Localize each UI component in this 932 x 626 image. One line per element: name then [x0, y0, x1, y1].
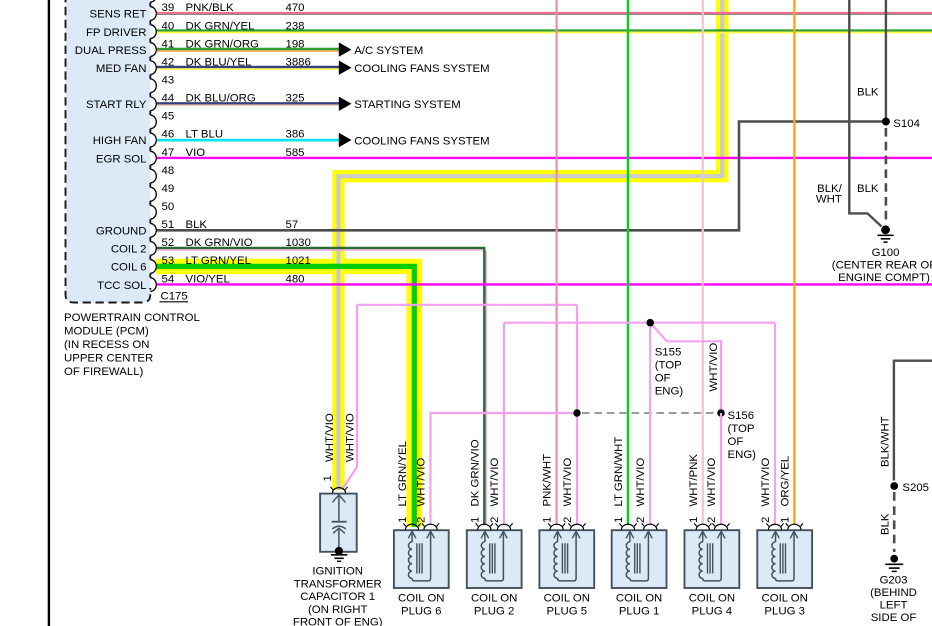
- splice S104: [882, 118, 890, 126]
- svg-text:MODULE (PCM): MODULE (PCM): [64, 325, 149, 337]
- svg-text:WHT/VIO: WHT/VIO: [345, 413, 357, 462]
- svg-text:ENGINE COMPT): ENGINE COMPT): [838, 272, 930, 284]
- PCM connector right edge (dashed segments): [149, 2, 151, 277]
- coil-on-plug 5 pin entry arcs: [548, 523, 586, 529]
- junction node (WHT/VIO): [573, 409, 580, 416]
- wire WHT/VIO (S155 horizontal bus): [504, 322, 775, 324]
- svg-text:ENG): ENG): [655, 386, 684, 398]
- svg-text:G203: G203: [880, 574, 908, 586]
- coil-on-plug 2 pin entry arcs: [476, 523, 513, 529]
- wire 42 DK BLU/YEL (to COOLING FANS SYSTEM arrow): [157, 66, 339, 68]
- svg-text:2: 2: [635, 517, 647, 523]
- svg-text:OF: OF: [655, 373, 671, 385]
- svg-text:HIGH FAN: HIGH FAN: [93, 135, 147, 147]
- svg-text:G100: G100: [872, 247, 900, 259]
- svg-text:IGNITION: IGNITION: [312, 566, 363, 578]
- svg-text:2: 2: [760, 517, 772, 523]
- wire 54 VIO/YEL (full width): [157, 283, 932, 285]
- svg-text:COIL 6: COIL 6: [111, 262, 147, 274]
- pin 54 bracket: [150, 278, 156, 292]
- svg-text:53: 53: [162, 255, 175, 267]
- coil-on-plug 6 caption: [398, 593, 444, 618]
- PCM connector C175 box (dashed, light blue): [66, 0, 151, 303]
- wire WHT/VIO (bus down to coil-on-plug 2 pin 2): [503, 323, 505, 525]
- ground G100: [878, 225, 894, 242]
- svg-text:PLUG 4: PLUG 4: [692, 605, 733, 617]
- svg-text:S155: S155: [655, 347, 682, 359]
- wire 53 LT GRN/YEL highlighted (yellow highlighter band pin 53 to coil-on-plug 6 pin 1): [156, 266, 414, 527]
- wire WHT/PNK (top to coil-on-plug 4 pin 1): [702, 0, 704, 525]
- svg-text:STARTING SYSTEM: STARTING SYSTEM: [354, 99, 461, 111]
- svg-text:2: 2: [416, 517, 428, 523]
- svg-text:COIL ON: COIL ON: [689, 593, 735, 605]
- coil-on-plug 2 pin labels (rotated): [469, 439, 501, 523]
- coil-on-plug 3 internal coil symbol: [772, 531, 798, 581]
- capacitor caption: [293, 566, 383, 626]
- wire BLK/WHT (top to ground G100): [849, 0, 881, 227]
- coil-on-plug 4 pin labels (rotated): [688, 454, 718, 523]
- svg-text:1: 1: [397, 517, 409, 523]
- wire splice link (dashed to S156): [582, 412, 716, 414]
- wire 52 DK GRN/VIO (to coil-on-plug 2 pin 1): [157, 248, 484, 525]
- coil-on-plug 1 caption: [616, 593, 662, 618]
- svg-text:COIL ON: COIL ON: [471, 593, 517, 605]
- svg-text:DK GRN/VIO: DK GRN/VIO: [469, 439, 481, 506]
- svg-text:TCC SOL: TCC SOL: [97, 280, 146, 292]
- wire 47 VIO (full width): [157, 157, 932, 159]
- coil-on-plug 5 caption: [544, 593, 590, 618]
- pin 44 bracket: [150, 97, 156, 111]
- capacitor C box (ignition transformer capacitor 1): [320, 494, 357, 552]
- svg-text:S104: S104: [893, 118, 920, 130]
- wire LT GRN/WHT (top to coil-on-plug 1 pin 1): [627, 0, 629, 525]
- splice S155: [646, 319, 654, 327]
- coil-on-plug 4 internal coil symbol: [699, 531, 725, 581]
- svg-text:COIL ON: COIL ON: [616, 593, 662, 605]
- wire 40 DK GRN/YEL (full width): [157, 29, 932, 31]
- svg-text:EGR SOL: EGR SOL: [96, 153, 147, 165]
- svg-text:A/C SYSTEM: A/C SYSTEM: [354, 45, 423, 57]
- pin 43 bracket: [150, 79, 156, 93]
- coil-on-plug 5 box: [539, 530, 594, 588]
- splice S156 caption: [728, 410, 757, 461]
- wire WHT/VIO (bus down-diagonal into capacitor pin 1): [342, 305, 357, 490]
- svg-text:SENS RET: SENS RET: [90, 9, 147, 21]
- pin 39 bracket: [150, 7, 156, 21]
- ground G203: [885, 555, 903, 572]
- capacitor pin 1 entry arc: [332, 488, 345, 494]
- svg-text:GROUND: GROUND: [96, 226, 147, 238]
- svg-text:BLK/WHT: BLK/WHT: [879, 416, 891, 467]
- svg-text:COIL ON: COIL ON: [398, 593, 444, 605]
- wire WHT/VIO core (white wire core inside highlight): [339, 0, 723, 490]
- svg-text:WHT/VIO: WHT/VIO: [416, 458, 428, 507]
- svg-text:PLUG 1: PLUG 1: [619, 605, 660, 617]
- svg-text:1021: 1021: [286, 255, 311, 267]
- coil-on-plug 4 box: [685, 530, 740, 588]
- svg-text:1: 1: [469, 517, 481, 523]
- svg-text:MED FAN: MED FAN: [96, 63, 147, 75]
- pin 45 bracket: [150, 115, 156, 129]
- svg-text:1: 1: [779, 517, 791, 523]
- capacitor internal symbol: [332, 494, 347, 550]
- svg-text:49: 49: [162, 183, 175, 195]
- svg-text:COIL 2: COIL 2: [111, 244, 147, 256]
- arrow A/C SYSTEM: [339, 42, 352, 56]
- svg-text:(BEHIND: (BEHIND: [870, 587, 917, 599]
- svg-text:COOLING FANS SYSTEM: COOLING FANS SYSTEM: [354, 63, 489, 75]
- ground G100 caption: [832, 247, 932, 284]
- svg-text:WHT/VIO: WHT/VIO: [489, 458, 501, 507]
- coil-on-plug 2 caption: [471, 593, 517, 618]
- svg-text:(CENTER REAR OF: (CENTER REAR OF: [832, 260, 932, 272]
- PCM module caption: [64, 312, 200, 378]
- wire 44 DK BLU/ORG (to STARTING SYSTEM arrow): [157, 102, 339, 104]
- wire ORG/YEL (top to coil-on-plug 3 pin 1): [793, 0, 795, 525]
- capacitor internal ground: [331, 547, 348, 561]
- splice S205: [890, 482, 898, 490]
- svg-text:1: 1: [688, 517, 700, 523]
- svg-text:WHT/VIO: WHT/VIO: [706, 458, 718, 507]
- splice S155 caption: [655, 347, 684, 398]
- svg-text:1: 1: [322, 475, 334, 481]
- svg-text:FRONT OF ENG): FRONT OF ENG): [293, 617, 383, 626]
- coil-on-plug 6 internal coil symbol: [408, 531, 434, 581]
- svg-text:WHT/PNK: WHT/PNK: [688, 454, 700, 507]
- arrow COOLING FANS SYSTEM (pin 42): [339, 61, 352, 75]
- arrow STARTING SYSTEM: [339, 97, 352, 111]
- svg-text:WHT/VIO: WHT/VIO: [760, 458, 772, 507]
- svg-text:(ON RIGHT: (ON RIGHT: [308, 604, 368, 616]
- coil-on-plug 3 caption: [761, 593, 807, 618]
- coil-on-plug 6 pin labels (rotated): [397, 441, 428, 523]
- svg-text:LT GRN/YEL: LT GRN/YEL: [186, 255, 251, 267]
- svg-text:SIDE OF: SIDE OF: [871, 612, 917, 624]
- arrow COOLING FANS SYSTEM (pin 46): [339, 133, 352, 147]
- svg-text:WHT/VIO: WHT/VIO: [635, 458, 647, 507]
- svg-text:LT GRN/WHT: LT GRN/WHT: [613, 437, 625, 507]
- coil-on-plug 4 caption: [689, 593, 735, 618]
- svg-text:ORG/YEL: ORG/YEL: [779, 456, 791, 507]
- wire WHT/VIO (junction left branch to coil-on-plug 6 pin 2): [431, 413, 578, 525]
- pin 51 bracket: [150, 224, 156, 238]
- pin 47 bracket: [150, 151, 156, 165]
- wire BLK/WHT (right edge to splice S205): [894, 361, 932, 481]
- wire BLK (top to splice S104): [885, 0, 887, 118]
- svg-text:FP DRIVER: FP DRIVER: [86, 27, 147, 39]
- wire WHT/VIO (capacitor branch horizontal bus): [357, 304, 577, 306]
- coil-on-plug 1 box: [612, 530, 667, 588]
- svg-text:50: 50: [162, 201, 175, 213]
- svg-text:LEFT: LEFT: [880, 599, 908, 611]
- svg-text:WHT/VIO: WHT/VIO: [562, 458, 574, 507]
- coil-on-plug 2 box: [467, 530, 522, 588]
- svg-text:S205: S205: [902, 482, 929, 494]
- wire WHT/VIO (S155 branch to S156): [650, 323, 721, 410]
- wire BLK (S104 to ground G100, dashed): [885, 128, 888, 225]
- wire 41 DK GRN/ORG (to A/C SYSTEM arrow): [157, 48, 339, 50]
- svg-text:PLUG 2: PLUG 2: [474, 605, 515, 617]
- wire BLK (S205 to ground G203, dashed): [893, 492, 896, 552]
- svg-text:WHT/VIO: WHT/VIO: [324, 413, 336, 462]
- wire 46 LT BLU (to COOLING FANS SYSTEM arrow): [157, 139, 339, 142]
- coil-on-plug 2 internal coil symbol: [481, 531, 507, 581]
- svg-text:ENG): ENG): [728, 449, 757, 461]
- coil-on-plug 5 internal coil symbol: [554, 531, 580, 581]
- pin 38 bracket (partial, top edge): [150, 0, 156, 2]
- coil-on-plug 1 pin entry arcs: [619, 523, 658, 529]
- svg-text:1: 1: [542, 517, 554, 523]
- coil-on-plug 5 pin labels (rotated): [542, 454, 574, 523]
- svg-text:UPPER CENTER: UPPER CENTER: [64, 352, 153, 364]
- pin 52 bracket: [150, 242, 156, 256]
- svg-text:(TOP: (TOP: [728, 423, 755, 435]
- svg-text:START RLY: START RLY: [86, 99, 147, 111]
- svg-text:PNK/WHT: PNK/WHT: [542, 454, 554, 507]
- page border line: [48, 0, 50, 626]
- svg-text:2: 2: [706, 517, 718, 523]
- svg-text:(TOP: (TOP: [655, 360, 682, 372]
- coil-on-plug 3 pin labels (rotated): [760, 456, 791, 523]
- coil-on-plug 3 box: [757, 530, 812, 588]
- pin 40 bracket: [150, 25, 156, 39]
- coil-on-plug 4 pin entry arcs: [694, 523, 729, 529]
- wire WHT/VIO (bus down to junction): [576, 305, 578, 413]
- svg-text:CAPACITOR 1: CAPACITOR 1: [300, 591, 375, 603]
- svg-text:2: 2: [489, 517, 501, 523]
- wire PNK/WHT (top to coil-on-plug 5 pin 1): [555, 0, 557, 525]
- coil-on-plug 1 pin labels (rotated): [613, 437, 647, 523]
- ground G203 caption: [870, 574, 917, 624]
- wire WHT/VIO (bus down to coil-on-plug 3 pin 2): [774, 323, 776, 525]
- pin 50 bracket: [150, 206, 156, 220]
- svg-text:BLK: BLK: [879, 513, 891, 535]
- splice S156: [717, 409, 725, 417]
- svg-text:PLUG 6: PLUG 6: [401, 605, 442, 617]
- svg-text:1: 1: [613, 517, 625, 523]
- svg-text:48: 48: [162, 165, 175, 177]
- svg-text:OF FIREWALL): OF FIREWALL): [64, 366, 144, 378]
- svg-text:(IN RECESS ON: (IN RECESS ON: [64, 339, 149, 351]
- svg-text:POWERTRAIN CONTROL: POWERTRAIN CONTROL: [64, 312, 200, 324]
- pin 53 bracket: [150, 260, 156, 274]
- svg-text:LT GRN/YEL: LT GRN/YEL: [397, 441, 409, 506]
- coil-on-plug 1 internal coil symbol: [626, 531, 652, 581]
- svg-text:BLK: BLK: [857, 86, 879, 98]
- coil-on-plug 6 pin entry arcs: [403, 523, 439, 529]
- wire 51 BLK (to splice S104): [157, 122, 882, 231]
- wire WHT/VIO (S156 down to coil-on-plug 4 pin 2): [720, 413, 722, 525]
- svg-text:45: 45: [162, 111, 175, 123]
- svg-text:2: 2: [562, 517, 574, 523]
- pin 49 bracket: [150, 187, 156, 201]
- wire 39 PNK/BLK (full width): [157, 12, 932, 14]
- pin 48 bracket: [150, 169, 156, 183]
- svg-text:PLUG 5: PLUG 5: [547, 605, 588, 617]
- pin 41 bracket: [150, 43, 156, 57]
- svg-text:WHT: WHT: [816, 194, 842, 206]
- pin 46 bracket: [150, 133, 156, 147]
- svg-text:TRANSFORMER: TRANSFORMER: [294, 578, 382, 590]
- svg-text:COIL ON: COIL ON: [761, 593, 807, 605]
- svg-text:WHT/VIO: WHT/VIO: [708, 343, 720, 392]
- wire WHT/VIO (S155 down to coil-on-plug 1 pin 2): [649, 323, 651, 525]
- wire 53 LT GRN/YEL core (light green core inside highlight): [156, 266, 414, 527]
- svg-text:COIL ON: COIL ON: [544, 593, 590, 605]
- svg-text:S156: S156: [728, 410, 755, 422]
- svg-text:COOLING FANS SYSTEM: COOLING FANS SYSTEM: [354, 135, 489, 147]
- svg-text:BLK: BLK: [857, 183, 879, 195]
- svg-text:43: 43: [162, 75, 175, 87]
- wire WHT/VIO highlighted (yellow highlighter band from top to capacitor pin 1): [339, 0, 723, 490]
- svg-text:PLUG 3: PLUG 3: [764, 605, 805, 617]
- svg-text:OF: OF: [728, 436, 744, 448]
- coil-on-plug 6 box: [394, 530, 449, 588]
- svg-text:C175: C175: [161, 291, 188, 303]
- wire WHT/VIO (junction down to coil-on-plug 5 pin 2): [576, 413, 578, 525]
- pin 42 bracket: [150, 61, 156, 75]
- svg-text:DUAL PRESS: DUAL PRESS: [75, 45, 147, 57]
- coil-on-plug 3 pin entry arcs: [766, 523, 803, 529]
